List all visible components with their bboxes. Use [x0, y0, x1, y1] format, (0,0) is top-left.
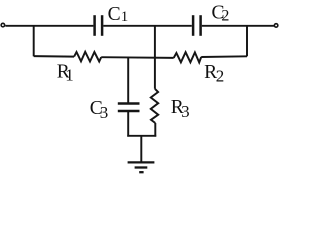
- wire: C2 right plate to output terminal: [202, 25, 274, 27]
- input terminal (left, open circle): [1, 23, 5, 27]
- output terminal (right, open circle): [274, 24, 278, 28]
- svg-text:C: C: [108, 4, 121, 25]
- wire: left branch vertical (input node down to lower rail): [33, 26, 35, 57]
- label C2: [212, 2, 230, 24]
- capacitor C2 (series, top rail): [193, 15, 201, 36]
- wire: lower rail, input branch to R1: [34, 55, 74, 58]
- wire: lower rail, R2 to output branch corner: [201, 55, 247, 58]
- wire: center vertical from top node T down to R3 (crosses lower rail, no connection): [154, 26, 156, 89]
- wire: input terminal to C1 left plate (top rail): [5, 25, 93, 27]
- resistor R1: [74, 52, 101, 62]
- label R3: [171, 97, 190, 121]
- wire: ground node rail joining C3 and R3 bottoms: [127, 135, 156, 137]
- wire: ground stem: [140, 136, 142, 162]
- capacitor C3 (shunt): [118, 104, 140, 112]
- wire: C3 bottom plate down to ground node rail: [127, 111, 129, 137]
- wire: C1 right plate to C2 left plate (through node T junction): [103, 25, 192, 27]
- wire: C3 branch down from lower rail: [127, 58, 129, 103]
- svg-text:3: 3: [100, 103, 109, 122]
- label C3: [90, 98, 109, 122]
- label R2: [204, 62, 224, 86]
- ground: [128, 162, 155, 172]
- capacitor C1 (series, top rail): [95, 15, 103, 36]
- svg-text:2: 2: [221, 8, 229, 25]
- label C1: [108, 4, 129, 25]
- svg-text:1: 1: [65, 66, 74, 85]
- resistor R3 (shunt, vertical): [151, 89, 158, 123]
- wire: right branch vertical (output node down to lower rail): [246, 26, 248, 57]
- label R1: [57, 62, 74, 85]
- wire: lower rail between R1 and R2 (crosses R3 branch, tees C3 branch): [101, 56, 174, 59]
- wire: R3 bottom down to ground node rail: [154, 123, 156, 137]
- svg-text:3: 3: [181, 102, 190, 121]
- svg-text:2: 2: [216, 66, 225, 85]
- svg-text:1: 1: [121, 9, 129, 25]
- resistor R2: [174, 52, 202, 62]
